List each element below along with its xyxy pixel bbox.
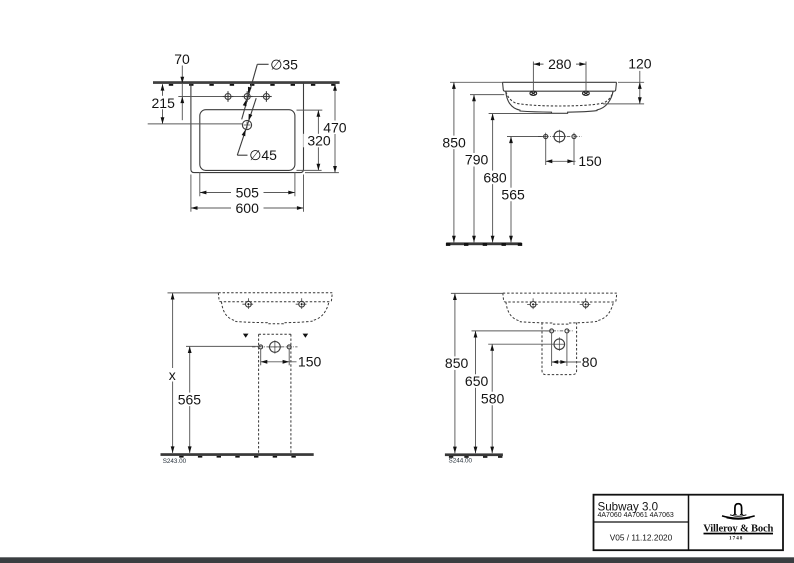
svg-text:150: 150 (298, 354, 322, 370)
dim 320 (297, 109, 323, 111)
svg-text:x: x (169, 367, 176, 383)
bottom dark bar (0, 557, 794, 563)
svg-text:565: 565 (178, 391, 202, 407)
wall ticks (169, 84, 336, 86)
floor line (445, 453, 503, 456)
svg-text:470: 470 (323, 119, 347, 135)
bolt left (527, 298, 539, 310)
VB logo mark (722, 504, 755, 520)
floor line (446, 242, 521, 245)
svg-text:280: 280 (548, 56, 572, 72)
svg-text:4A7060 4A7061 4A7063: 4A7060 4A7061 4A7063 (598, 512, 674, 519)
hole left (259, 345, 263, 349)
title block frame (594, 495, 784, 551)
ext x (168, 292, 219, 294)
dim 280 (532, 62, 534, 92)
svg-text:850: 850 (445, 355, 469, 371)
svg-text:680: 680 (483, 169, 507, 185)
hole right (287, 345, 291, 349)
tap hole right (261, 91, 272, 102)
horizontal divider (594, 521, 689, 523)
hole right (565, 329, 569, 333)
hole left (550, 329, 554, 333)
dim 70 (181, 66, 183, 121)
basin profile dashed (218, 293, 332, 324)
siphon cover dashed (542, 323, 577, 375)
dashed column top (259, 333, 291, 335)
dim 600 (190, 175, 192, 212)
tap holes line (178, 96, 266, 98)
fix direction arrow right (303, 334, 309, 338)
dim 470 (305, 172, 339, 174)
dim 150 (545, 139, 547, 165)
vertical divider (688, 495, 690, 551)
svg-text:790: 790 (465, 152, 489, 168)
bolt right (296, 298, 308, 310)
dim 150 (260, 349, 262, 365)
svg-text:565: 565 (501, 186, 525, 202)
basin profile solid (503, 82, 617, 113)
drain circle (242, 120, 251, 129)
dim 565 (189, 346, 191, 453)
fixing holes group (538, 136, 582, 138)
leader dia35 (257, 63, 268, 65)
svg-text:V05 / 11.12.2020: V05 / 11.12.2020 (610, 532, 673, 542)
svg-text:850: 850 (442, 134, 466, 150)
floor line (161, 453, 314, 456)
dim 650 (475, 331, 477, 453)
dim 790 (473, 95, 475, 243)
tap hole middle (242, 91, 253, 102)
svg-text:215: 215 (152, 95, 176, 111)
holes dashdot line (252, 346, 298, 348)
svg-text:1748: 1748 (729, 535, 743, 541)
svg-text:∅45: ∅45 (249, 147, 277, 163)
dim 850 (453, 82, 455, 242)
dim 680 (492, 114, 494, 243)
basin inner bowl rect (200, 110, 295, 171)
svg-text:70: 70 (174, 51, 190, 67)
bolt left (242, 298, 254, 310)
ext 850 (450, 81, 503, 83)
svg-text:S244.00: S244.00 (449, 458, 473, 465)
fix direction arrow left (243, 334, 249, 338)
ext 850 (451, 292, 503, 294)
svg-text:580: 580 (481, 391, 505, 407)
bolt right (580, 298, 592, 310)
svg-text:120: 120 (628, 56, 652, 72)
ext 565 (507, 136, 546, 138)
svg-text:∅35: ∅35 (270, 56, 298, 72)
svg-text:505: 505 (236, 185, 260, 201)
drain hole circle (553, 130, 566, 143)
dim 505 (199, 172, 201, 196)
bolt right (583, 91, 590, 95)
ext 565 (186, 345, 261, 347)
dim 80 (551, 333, 553, 366)
svg-text:80: 80 (582, 354, 598, 370)
holes dashdot line (545, 330, 573, 332)
dashed column left (258, 334, 260, 453)
svg-text:600: 600 (236, 200, 260, 216)
basin profile dashed (503, 293, 617, 324)
dim 850 (454, 293, 456, 453)
dim 580 (491, 344, 493, 453)
VB logo underline (704, 533, 774, 535)
drain circle (268, 340, 281, 353)
leader dia45 (237, 154, 247, 156)
dim 565 (510, 137, 512, 243)
dim 215 (148, 123, 243, 125)
svg-text:650: 650 (465, 373, 489, 389)
ext 650 (472, 330, 552, 332)
tap hole left (223, 91, 234, 102)
svg-text:S243.00: S243.00 (163, 458, 187, 465)
drain circle (554, 337, 565, 351)
dashed column right (290, 334, 292, 453)
ext 790 (470, 94, 504, 96)
basin outer rect (191, 84, 304, 173)
dim x (172, 293, 174, 453)
svg-text:150: 150 (578, 153, 602, 169)
wall line (153, 81, 340, 84)
bolt left (530, 91, 537, 95)
ext 680 (489, 113, 568, 115)
ext 580 (488, 343, 554, 345)
